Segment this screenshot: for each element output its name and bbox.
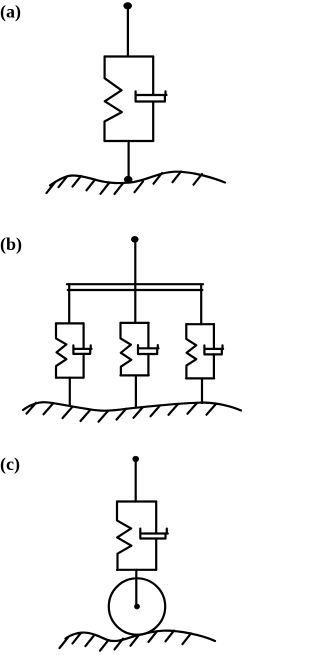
svg-text:(c): (c) <box>0 454 20 475</box>
svg-text:(b): (b) <box>0 234 22 255</box>
svg-text:(a): (a) <box>0 2 21 23</box>
